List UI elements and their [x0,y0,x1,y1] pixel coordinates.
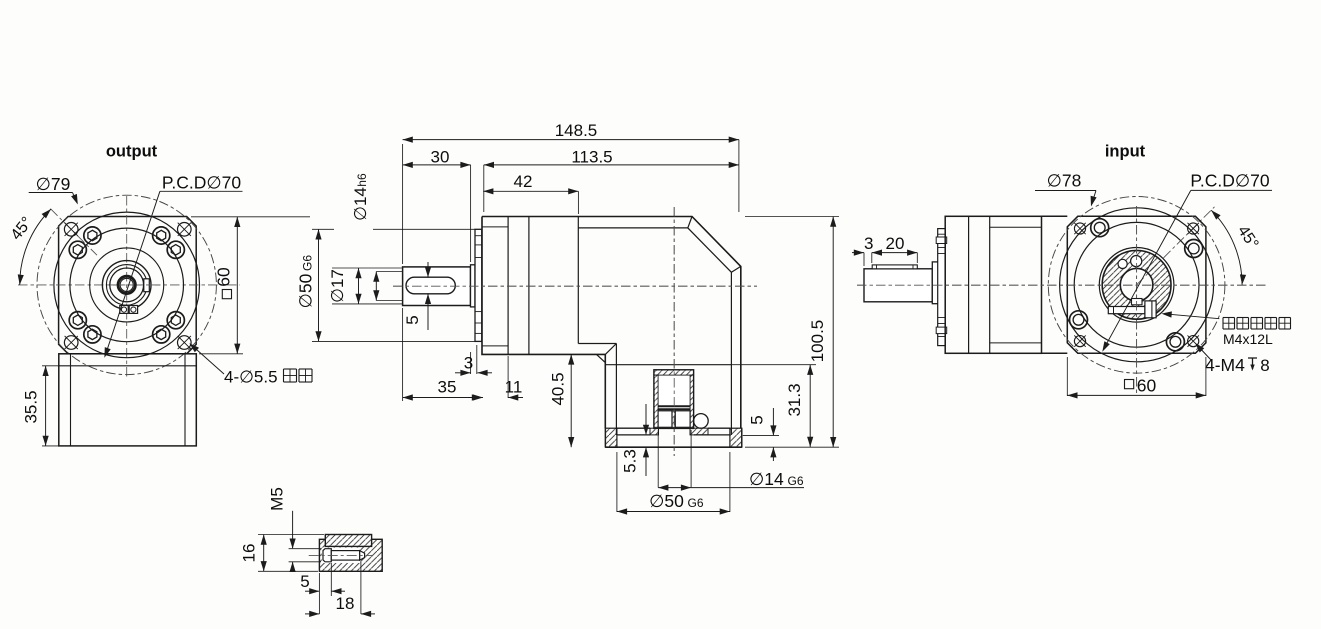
centerline vertical of input leg [673,207,675,456]
flange lip hatched left [605,428,617,447]
45 deg dimension (input) [1211,210,1242,285]
centerline horizontal redraw (middle) [393,285,757,287]
set screw shank [331,551,359,561]
svg-text:45°: 45° [1234,223,1262,253]
svg-text:100.5: 100.5 [808,320,827,363]
dimension 11 [507,356,509,398]
svg-text:M4x12L: M4x12L [1223,331,1273,347]
output flange square (chamfered corners) [59,217,197,354]
dimension square60 (output) [191,216,310,218]
label hex-socket-screw M4x12L with leader [1164,314,1219,319]
centerline 45-deg diagonal (input) [1137,207,1215,285]
shaft collar (input view) [932,262,938,304]
svg-text:60: 60 [1137,376,1157,396]
dimension 40.5 [570,354,572,447]
detail block (hatched) [319,539,382,571]
svg-text:60: 60 [214,267,234,287]
dimension 20 (input side) [872,252,918,254]
hex socket clamp screw head [1145,301,1156,318]
svg-text:5: 5 [300,572,309,591]
svg-text:5: 5 [403,315,422,324]
big circle (P.C.D 70 region, input) [1060,208,1214,362]
8 socket head screws on output face [84,227,101,244]
dimension dia14G6 [657,430,659,488]
input flange square (chamfered corners) [1067,216,1206,353]
circlip outer circle [102,261,151,310]
bearing bore circle [90,248,164,322]
boss circle dia50G6 [70,228,184,342]
clamp collar halves [658,411,672,428]
motor boss circle (input) [1074,222,1199,347]
dimension 35 [402,308,404,401]
set screw tip [360,551,365,561]
centerline 45-deg diagonal through corner hole [51,209,98,256]
centerline horizontal (output) [18,284,240,286]
dimension 5.3 [645,404,647,434]
hanzi: nei liu jiao luo si (hex socket screw) [1223,317,1235,319]
dimension dia14h6 (rotated label) [376,271,402,273]
dimension dia50G6 (bottom) [616,452,618,512]
centerline vertical redraw (leg) [673,207,675,456]
keyway slot on shaft [406,277,455,294]
motor adapter rib plate [938,229,946,346]
two pin holes in coupling [1118,259,1127,268]
pilot boss dia50G6 (3mm) [475,229,482,341]
hatched wedge left of input bore [650,428,659,435]
gearbox body (input side view) [945,216,1041,353]
svg-text:∅79: ∅79 [36,174,71,194]
outer boss circle (P.C.D 70 region) [54,212,200,358]
flange lip hatched right [730,428,742,447]
dimension 148.5 [402,144,404,264]
set screw cavity [322,548,361,563]
svg-text:h6: h6 [355,173,369,187]
input flange plate edge-on [1042,215,1068,217]
gearbox housing outline (L-shape) [482,217,741,429]
hatched wedge right of input bore [690,428,708,435]
inner chamfer line (top) [578,228,731,435]
dimension 30 [470,165,472,262]
shaft dia14 circle [110,268,144,302]
svg-text:18: 18 [336,594,355,613]
dimension 42 [577,191,579,214]
45 deg dimension (output) [20,209,51,285]
circle dia78 (dash-dot) [1048,196,1225,373]
svg-text:148.5: 148.5 [555,121,598,140]
output shaft (middle view) [403,267,471,306]
dimension 35.5 (output) [42,365,59,367]
dimension 18 [318,573,320,614]
svg-text:31.3: 31.3 [785,383,804,416]
label 4-dia5.5 through-holes with leader [192,346,224,375]
centerline vertical (output) [126,196,128,378]
centerline vertical (input view) [1136,206,1138,396]
coupling hub outer circles [1099,247,1174,322]
clamp collar slot (input face) [1108,307,1145,314]
centerline horizontal (input view) [857,284,1268,286]
circle dia79 (dash-dot) [37,195,216,374]
svg-text:113.5: 113.5 [571,148,612,167]
bearing seat thick lines [658,405,690,407]
circlip inner circle [106,265,147,306]
screw centerline [309,554,373,556]
svg-text:∅50: ∅50 [296,273,316,308]
dimension square60 (input) [1066,357,1068,396]
flange top surface lines [617,427,650,429]
centerline redraw over keyway (output) [110,284,160,286]
hanzi: guanchuan (through holes) [284,368,297,370]
svg-text:35: 35 [438,378,457,397]
svg-text:∅14: ∅14 [749,469,784,489]
shaft center hole ring [118,276,135,293]
keyway on shaft end (output face) [144,279,150,292]
circlip lug left [120,306,128,314]
svg-text:output: output [106,143,158,161]
output shaft seen from input side [864,269,932,302]
dimension 100.5 [745,216,839,218]
dimension 31.3 [731,364,816,366]
svg-text:4-M4: 4-M4 [1205,355,1245,375]
hatched coupling: annulus [1102,250,1171,319]
svg-text:G6: G6 [788,474,804,488]
input flange plate (bottom, sectioned) [605,446,741,448]
dimension 113.5 [483,165,485,212]
dimension 16 [258,534,324,536]
svg-text:G6: G6 [688,496,704,510]
dimension 5 (flange) [743,435,779,437]
label 4-M4 depth 8 with leader [1197,345,1213,362]
svg-text:8: 8 [1260,356,1269,375]
flange plate internal lines [507,217,509,355]
svg-text:3: 3 [864,234,873,253]
dimension 5 (detail) [330,563,332,596]
clamp screw head circle [694,414,709,429]
svg-text:3: 3 [464,354,473,373]
4 corner through-holes dia5.5 with X marks [64,223,78,237]
bore keyway notch [1132,299,1143,305]
svg-text:30: 30 [431,148,450,167]
centerline horizontal redraw (input) [857,284,1268,286]
svg-text:42: 42 [514,172,533,191]
circlip lug right [129,306,137,314]
input coupling bore (sectioned) [654,370,694,429]
svg-text:40.5: 40.5 [549,372,568,405]
svg-text:35.5: 35.5 [22,390,41,423]
svg-text:input: input [1105,143,1146,161]
svg-text:5.3: 5.3 [621,449,640,473]
svg-text:∅50: ∅50 [649,491,684,511]
svg-text:20: 20 [886,234,905,253]
svg-text:16: 16 [240,544,259,563]
svg-text:5: 5 [748,415,767,424]
dimension 5 (keyway width) [427,262,429,277]
svg-text:∅14: ∅14 [351,187,370,221]
svg-text:11: 11 [505,378,523,397]
key strip on shaft [872,265,917,269]
dimension 3 (pilot boss) [470,352,472,374]
svg-text:P.C.D∅70: P.C.D∅70 [1190,171,1269,191]
output lower body (vertical leg, from output side) [59,354,197,446]
4 motor screws (input) [1091,219,1109,237]
flange recess dia50G6 line [617,434,650,436]
svg-text:P.C.D∅70: P.C.D∅70 [162,173,241,193]
svg-text:M5: M5 [268,487,287,511]
4 corner tapped holes M4 with X marks (input) [1074,223,1085,234]
dimension dia50G6 (pilot boss) [312,228,334,230]
set screw head [323,549,331,562]
centerline vertical redraw (input) [1136,206,1138,396]
depth symbol in 4-M4 label [1248,357,1257,359]
dimension 3 (input side) [863,253,865,266]
detail top boss (hatched) [325,535,371,547]
svg-text:45°: 45° [8,214,36,244]
svg-text:4-∅5.5: 4-∅5.5 [224,368,278,387]
svg-text:∅17: ∅17 [328,269,347,303]
svg-text:G6: G6 [301,255,315,271]
shaft collar [471,265,476,307]
svg-text:∅78: ∅78 [1047,171,1082,191]
dimension M5 [289,548,321,550]
inner corner of L with chamfer facets [578,343,616,345]
dimension dia17 (rotated label) [332,267,402,269]
centerline horizontal (middle view) [393,285,757,287]
